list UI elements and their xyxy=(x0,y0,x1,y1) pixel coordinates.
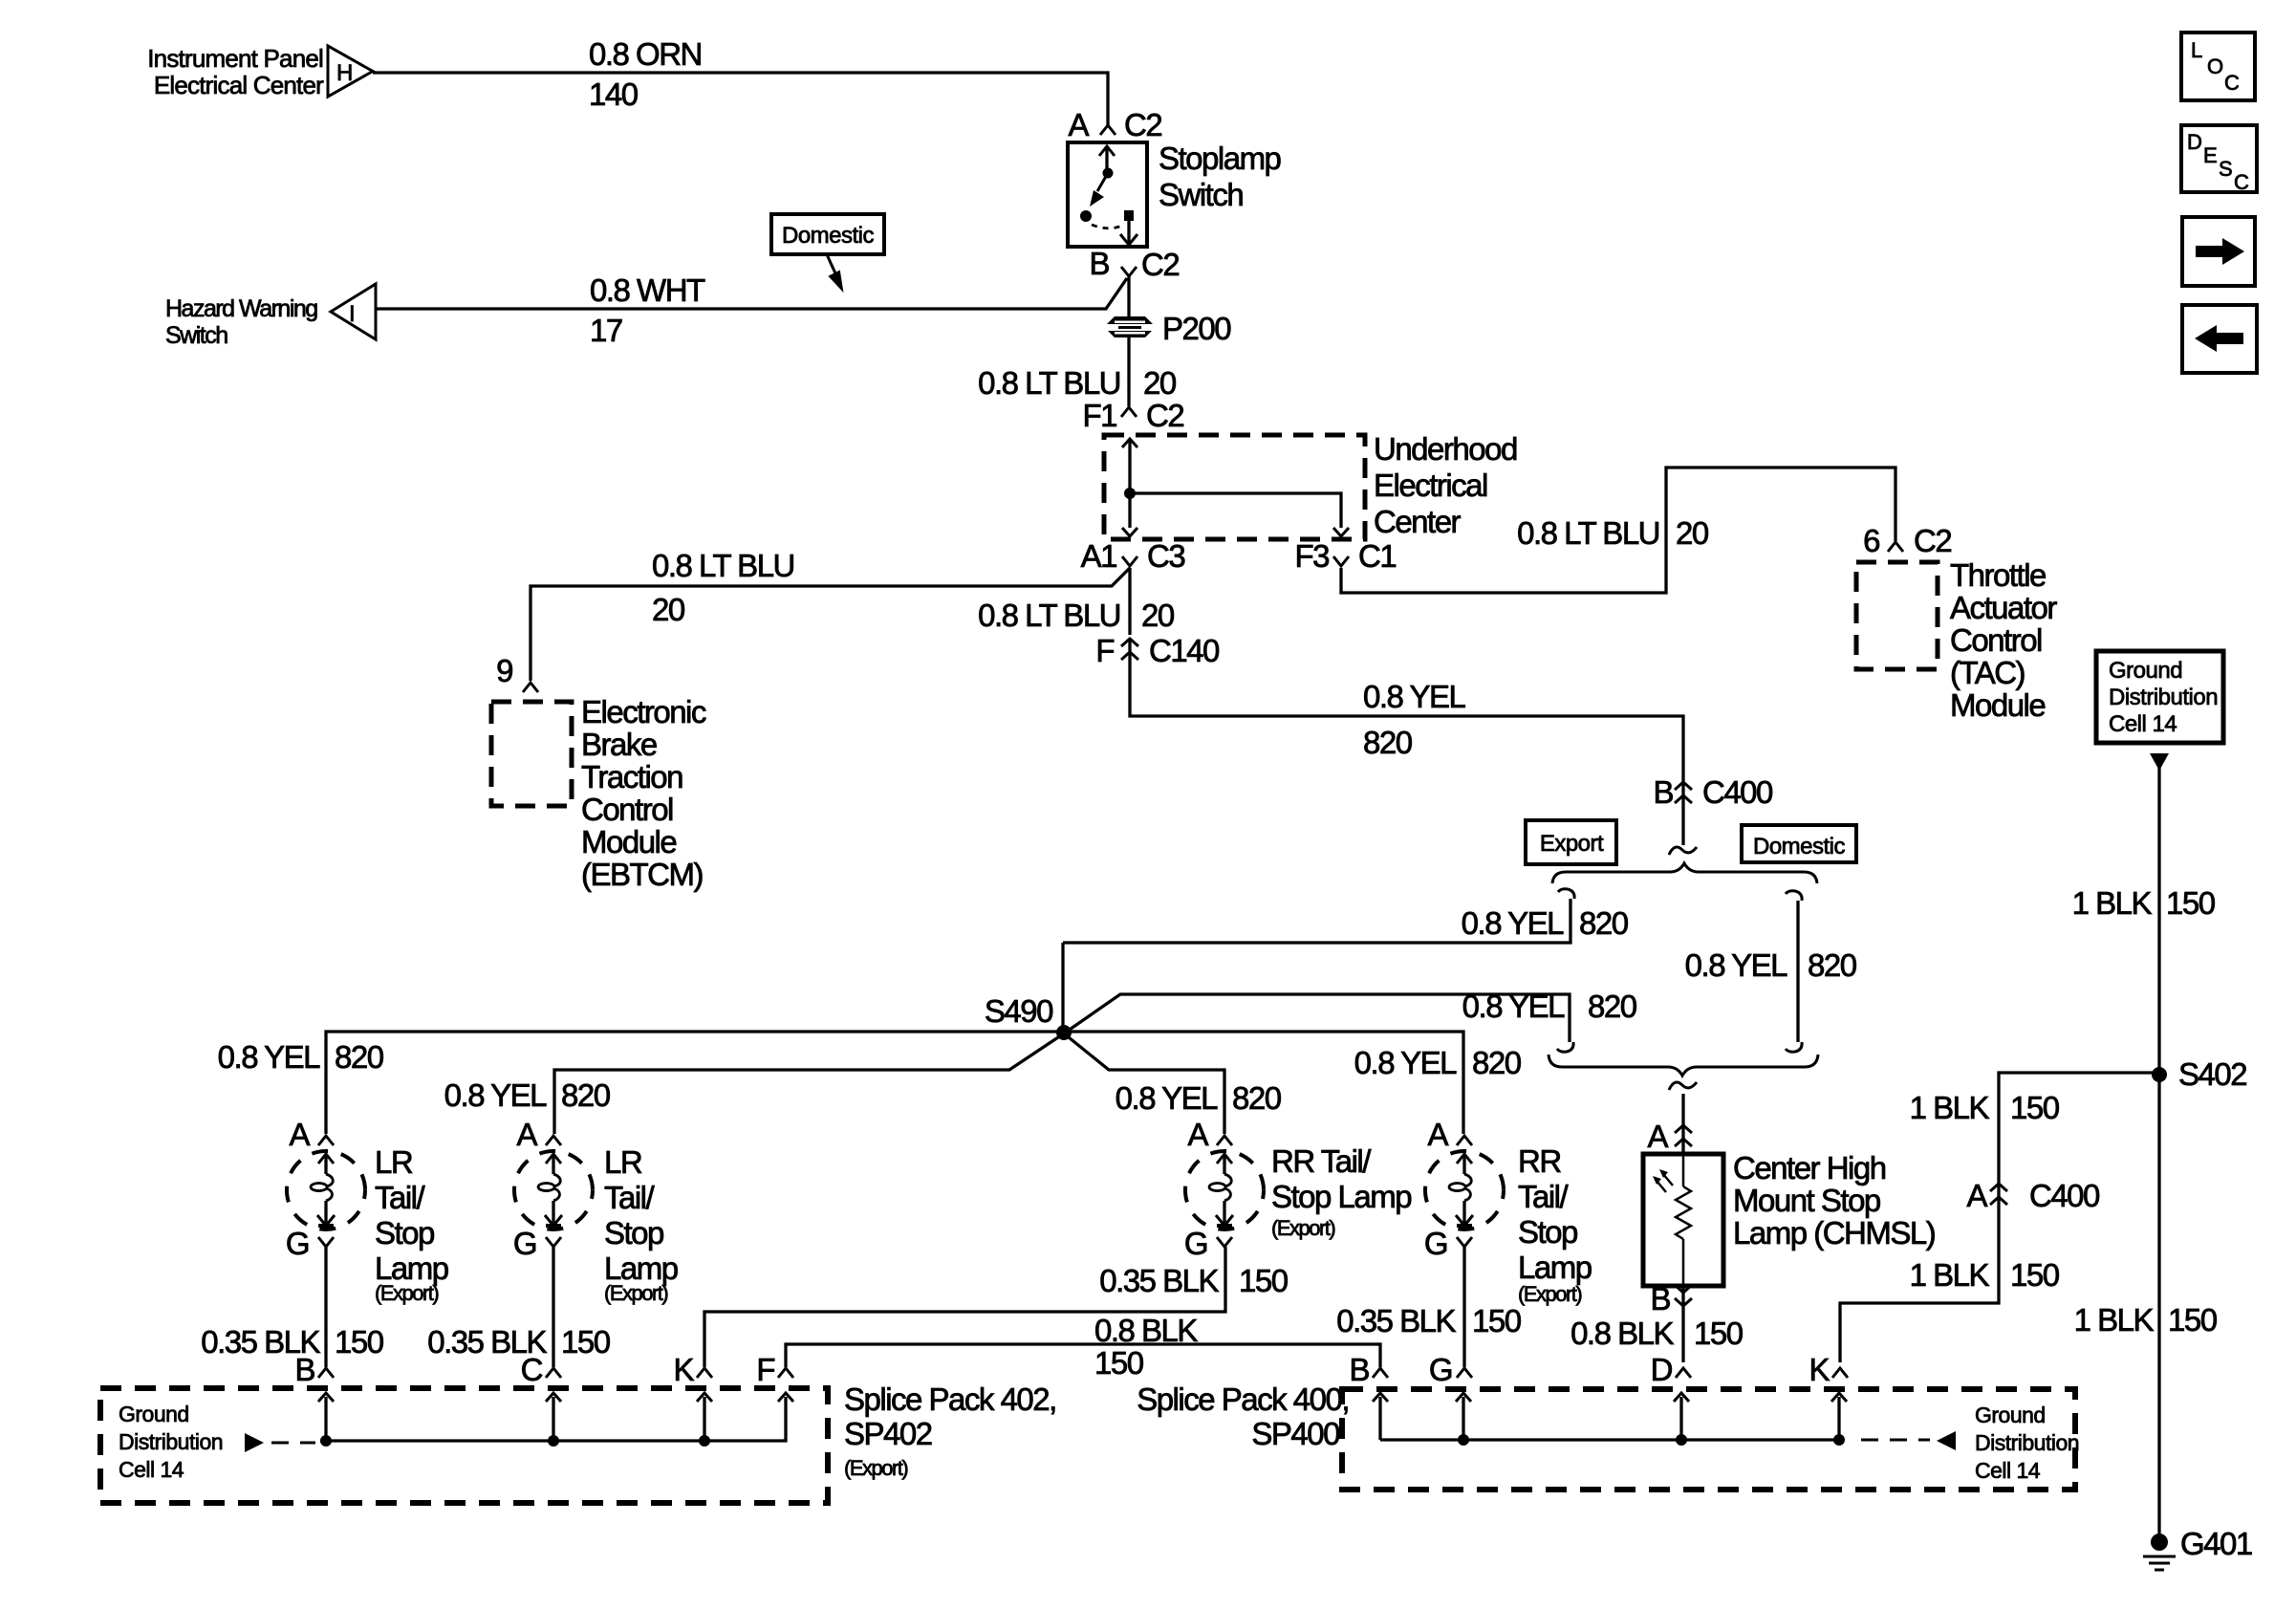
label 1 BLK (branch upper) xyxy=(1910,1090,1990,1125)
svg-text:820: 820 xyxy=(1588,989,1637,1024)
label 0.35 BLK (lamp3) xyxy=(1099,1263,1219,1298)
label Stoplamp Switch xyxy=(1159,141,1281,212)
svg-text:F1: F1 xyxy=(1082,398,1116,433)
label S490 xyxy=(985,993,1053,1029)
label C2 at pin B xyxy=(1141,247,1179,282)
domestic branch vertical wire with curls xyxy=(1786,891,1802,1052)
arrow from Ground Distribution box xyxy=(2150,753,2169,771)
pin B fork of splice pack 400 xyxy=(1349,1352,1388,1387)
connector triangle I to Hazard Warning Switch xyxy=(331,284,376,339)
label F1 xyxy=(1082,398,1116,433)
svg-text:0.8 YEL: 0.8 YEL xyxy=(1116,1080,1218,1116)
svg-text:0.8 ORN: 0.8 ORN xyxy=(589,36,702,72)
svg-text:Ground: Ground xyxy=(119,1402,189,1426)
label 0.8 ORN xyxy=(589,36,702,72)
svg-text:0.8 WHT: 0.8 WHT xyxy=(590,272,705,308)
svg-text:A: A xyxy=(1966,1178,1987,1213)
svg-text:820: 820 xyxy=(1808,947,1857,983)
label 6 at TAC pin xyxy=(1863,523,1879,558)
svg-text:A: A xyxy=(516,1117,537,1152)
label 0.8 YEL (domestic branch) xyxy=(1685,947,1787,983)
label 820 (C400 wire) xyxy=(1363,725,1413,760)
wire 0.35 BLK 150 lamp4 to splice pack 400 pin G xyxy=(1462,1247,1465,1367)
svg-text:A: A xyxy=(1647,1119,1668,1154)
label C400 (right) xyxy=(2029,1178,2100,1213)
legend box LOC xyxy=(2181,33,2255,100)
svg-text:820: 820 xyxy=(1363,725,1413,760)
pin B fork of splice pack 402 xyxy=(294,1352,334,1387)
svg-text:O: O xyxy=(2207,54,2223,78)
svg-text:C400: C400 xyxy=(1702,774,1773,810)
node S402 junction dot xyxy=(2152,1067,2167,1082)
svg-text:(Export): (Export) xyxy=(375,1281,438,1305)
ground distribution leader arrow (SP402) xyxy=(245,1433,315,1452)
svg-text:S490: S490 xyxy=(985,993,1053,1029)
lamp symbol LR tail/stop lamp 1 xyxy=(287,1151,365,1229)
stoplamp switch box xyxy=(1068,142,1147,247)
svg-text:Control: Control xyxy=(1950,622,2042,658)
ground G401 symbol xyxy=(2143,1534,2176,1570)
wire 0.8 ORN 140 from H to stoplamp switch pin A xyxy=(373,73,1108,125)
svg-text:150: 150 xyxy=(2166,885,2216,921)
svg-text:A: A xyxy=(289,1117,310,1152)
svg-text:Mount Stop: Mount Stop xyxy=(1733,1183,1880,1218)
label 1 BLK (branch lower) xyxy=(1910,1257,1990,1293)
label 0.35 BLK (lamp2) xyxy=(427,1324,547,1360)
svg-text:Module: Module xyxy=(581,824,676,859)
svg-text:0.8 YEL: 0.8 YEL xyxy=(1462,905,1564,941)
svg-text:S402: S402 xyxy=(2178,1056,2246,1092)
svg-text:C: C xyxy=(2234,170,2249,194)
svg-text:820: 820 xyxy=(561,1077,611,1113)
svg-text:C3: C3 xyxy=(1147,538,1184,574)
label 0.8 LT BLU (TAC wire) xyxy=(1517,515,1659,551)
label 150 (lamp3 gnd) xyxy=(1239,1263,1289,1298)
svg-text:0.35 BLK: 0.35 BLK xyxy=(1336,1303,1456,1338)
svg-text:C400: C400 xyxy=(2029,1178,2100,1213)
wire S402 branch to A C400 and splice pack 400 pin K xyxy=(1840,1073,2159,1362)
arrow from Domestic flag to WHT wire xyxy=(827,254,842,290)
label 820 (lamp4) xyxy=(1472,1045,1522,1080)
pin A connector C400 (right) xyxy=(1966,1178,2007,1213)
label RR Tail/Stop Lamp (Export) xyxy=(1271,1143,1411,1240)
label C140 xyxy=(1149,633,1220,668)
svg-text:LR: LR xyxy=(375,1144,413,1180)
svg-text:20: 20 xyxy=(652,592,685,627)
svg-text:G: G xyxy=(1429,1352,1452,1387)
label 0.35 BLK (lamp4) xyxy=(1336,1303,1456,1338)
svg-text:Stop: Stop xyxy=(375,1215,434,1251)
label Ground Distribution Cell 14 (in SP402) xyxy=(119,1402,223,1482)
label B at C400 xyxy=(1653,774,1673,810)
label 9 at EBTCM pin xyxy=(496,653,512,688)
svg-text:Electrical Center: Electrical Center xyxy=(154,71,324,99)
svg-text:Traction: Traction xyxy=(581,759,682,794)
stoplamp switch internal contacts xyxy=(1080,146,1137,245)
svg-text:Lamp: Lamp xyxy=(1518,1250,1592,1285)
pin G fork of RR tail/stop lamp xyxy=(1424,1226,1472,1261)
svg-text:S: S xyxy=(2219,157,2233,181)
svg-text:820: 820 xyxy=(1232,1080,1282,1116)
svg-text:Electronic: Electronic xyxy=(581,694,706,729)
pin B label of stoplamp switch xyxy=(1089,246,1109,281)
pin A fork C2 on stoplamp switch xyxy=(1100,125,1116,135)
svg-text:150: 150 xyxy=(2168,1302,2218,1338)
svg-text:0.8 BLK: 0.8 BLK xyxy=(1570,1316,1674,1351)
svg-text:G: G xyxy=(513,1226,536,1261)
label LR Tail/Stop Lamp (Export) 1 xyxy=(375,1144,448,1305)
svg-text:820: 820 xyxy=(1579,905,1629,941)
svg-text:F3: F3 xyxy=(1294,538,1329,574)
svg-text:D: D xyxy=(1651,1352,1673,1387)
svg-text:Module: Module xyxy=(1950,687,2045,723)
svg-text:Center: Center xyxy=(1374,504,1462,539)
svg-text:150: 150 xyxy=(1094,1345,1144,1381)
pin K fork of splice pack 400 xyxy=(1809,1352,1848,1387)
svg-text:(EBTCM): (EBTCM) xyxy=(581,857,703,892)
svg-text:0.8 YEL: 0.8 YEL xyxy=(1685,947,1787,983)
label C1 xyxy=(1358,538,1396,574)
label 820 (lamp3) xyxy=(1232,1080,1282,1116)
svg-text:820: 820 xyxy=(1472,1045,1522,1080)
svg-text:E: E xyxy=(2203,143,2218,167)
svg-text:C2: C2 xyxy=(1146,398,1183,433)
underbrace joining Export and Domestic to CHMSL xyxy=(1549,1055,1818,1076)
wire S490 riser xyxy=(1061,943,1064,1033)
svg-text:0.8 LT BLU: 0.8 LT BLU xyxy=(1517,515,1659,551)
svg-text:17: 17 xyxy=(590,313,622,348)
underhood internal wire to F3 xyxy=(1130,493,1349,536)
svg-text:RR: RR xyxy=(1518,1143,1561,1179)
label C2 at pin A xyxy=(1124,107,1161,142)
svg-text:Splice Pack 400,: Splice Pack 400, xyxy=(1137,1382,1349,1417)
svg-text:C: C xyxy=(521,1352,543,1387)
svg-text:C2: C2 xyxy=(1914,523,1951,558)
flag box Domestic (middle) xyxy=(1742,825,1856,862)
lamp symbol RR tail/stop lamp (export) xyxy=(1185,1151,1264,1229)
pin 6 fork C2 on TAC module xyxy=(1888,542,1903,552)
svg-text:140: 140 xyxy=(589,76,639,112)
svg-text:Center High: Center High xyxy=(1733,1150,1886,1186)
grommet P200 symbol xyxy=(1099,316,1160,337)
wire 1 BLK 150 main ground drop xyxy=(2157,765,2160,1537)
label P200 xyxy=(1162,311,1231,346)
wire 0.35 BLK 150 lamp2 to splice pack 402 pin C xyxy=(552,1247,554,1367)
label 820 (domestic branch) xyxy=(1808,947,1857,983)
svg-text:150: 150 xyxy=(1239,1263,1289,1298)
label 0.8 LT BLU 20 above C140 xyxy=(978,598,1175,633)
pin C fork of splice pack 402 xyxy=(521,1352,561,1387)
svg-text:820: 820 xyxy=(335,1039,384,1075)
flag box Export xyxy=(1526,820,1616,864)
svg-text:Domestic: Domestic xyxy=(782,223,875,249)
wire 0.35 BLK 150 lamp1 to splice pack 402 pin B xyxy=(324,1247,327,1367)
label 0.8 YEL (lamp4) xyxy=(1354,1045,1457,1080)
wire from underbrace to CHMSL pin A xyxy=(1681,1094,1684,1154)
label 150 (jumper) xyxy=(1094,1345,1144,1381)
svg-text:G: G xyxy=(1424,1226,1447,1261)
pin F fork of splice pack 402 xyxy=(756,1352,793,1387)
underhood electrical center dashed box xyxy=(1104,435,1365,539)
label F at C140 xyxy=(1095,633,1114,668)
svg-text:(Export): (Export) xyxy=(1518,1282,1581,1306)
ground distribution leader arrow (SP400) xyxy=(1861,1431,1956,1450)
svg-text:Lamp (CHMSL): Lamp (CHMSL) xyxy=(1733,1215,1935,1251)
wire S490 to LR tail stop lamp 1 xyxy=(326,1032,1064,1134)
svg-text:A: A xyxy=(1427,1117,1448,1152)
svg-text:D: D xyxy=(2187,130,2202,154)
svg-text:I: I xyxy=(349,301,356,327)
splice pack 400 dashed box xyxy=(1342,1389,2075,1490)
svg-text:RR Tail/: RR Tail/ xyxy=(1271,1143,1372,1179)
svg-text:0.8 YEL: 0.8 YEL xyxy=(218,1039,320,1075)
svg-text:F: F xyxy=(1095,633,1114,668)
label C2 at F1 xyxy=(1146,398,1183,433)
label C3 xyxy=(1147,538,1184,574)
svg-text:Ground: Ground xyxy=(1975,1403,2046,1427)
svg-text:Distribution: Distribution xyxy=(119,1429,223,1454)
label 20 (EBTCM wire) xyxy=(652,592,685,627)
svg-text:(Export): (Export) xyxy=(604,1281,667,1305)
label 150 (lamp1 gnd) xyxy=(335,1324,384,1360)
svg-text:0.8 YEL: 0.8 YEL xyxy=(1354,1045,1457,1080)
label F3 xyxy=(1294,538,1329,574)
svg-text:150: 150 xyxy=(1472,1303,1522,1338)
svg-text:Stop: Stop xyxy=(1518,1214,1577,1250)
svg-text:Domestic: Domestic xyxy=(1753,834,1846,859)
label 820 (export branch) xyxy=(1579,905,1629,941)
wire S490 to RR tail stop lamp export xyxy=(1064,1033,1224,1134)
wire 0.8 BLK 150 from CHMSL B to splice pack 400 pin D xyxy=(1681,1286,1684,1362)
svg-text:0.8 YEL: 0.8 YEL xyxy=(1363,679,1465,714)
label 20 (TAC wire) xyxy=(1676,515,1709,551)
label 0.8 YEL (C400 wire) xyxy=(1363,679,1465,714)
label 17 xyxy=(590,313,622,348)
label 150 (lamp2 gnd) xyxy=(561,1324,611,1360)
label Instrument Panel Electrical Center xyxy=(147,44,324,99)
svg-text:G401: G401 xyxy=(2180,1526,2252,1561)
svg-text:1 BLK: 1 BLK xyxy=(1910,1257,1990,1293)
pin F1 fork C2 on underhood electrical center xyxy=(1121,407,1137,417)
pin B fork C2 on stoplamp switch xyxy=(1121,267,1137,276)
svg-text:Cell 14: Cell 14 xyxy=(119,1457,184,1482)
underhood internal wire to F1 with junction xyxy=(1122,439,1137,536)
pin G fork of LR tail/stop lamp 2 xyxy=(513,1226,561,1261)
label 150 (CHMSL) xyxy=(1694,1316,1744,1351)
label 820 (S490 to brace) xyxy=(1588,989,1637,1024)
pin G fork of RR tail/stop lamp (export) xyxy=(1184,1226,1232,1261)
Ground Distribution Cell 14 box (top right) xyxy=(2096,651,2223,743)
splice pack 402 dashed box xyxy=(100,1388,828,1503)
EBTCM dashed box xyxy=(491,702,572,806)
pin A fork of RR tail/stop lamp xyxy=(1427,1117,1472,1152)
lamp symbol RR tail/stop lamp xyxy=(1425,1151,1504,1229)
label 150 (upper) xyxy=(2166,885,2216,921)
label 0.8 YEL (S490 to brace) xyxy=(1462,989,1565,1024)
pin G fork of splice pack 400 xyxy=(1429,1352,1472,1387)
pin 9 fork on EBTCM xyxy=(523,683,538,692)
svg-text:B: B xyxy=(1089,246,1109,281)
wire S490 to LR tail stop lamp 2 xyxy=(554,1033,1064,1134)
label 820 (lamp2) xyxy=(561,1077,611,1113)
label Ground Distribution Cell 14 (in SP400) xyxy=(1975,1403,2079,1483)
pin G fork of LR tail/stop lamp 1 xyxy=(286,1226,334,1261)
svg-text:Ground: Ground xyxy=(2109,658,2182,684)
pin A connector of CHMSL xyxy=(1647,1119,1692,1154)
label 150 (branch lower) xyxy=(2010,1257,2060,1293)
svg-text:Tail/: Tail/ xyxy=(1518,1179,1570,1214)
svg-text:B: B xyxy=(1349,1352,1369,1387)
label S402 xyxy=(2178,1056,2246,1092)
svg-text:Stoplamp: Stoplamp xyxy=(1159,141,1281,176)
label 150 (branch upper) xyxy=(2010,1090,2060,1125)
label 0.8 YEL (export branch) xyxy=(1462,905,1564,941)
svg-text:0.8 YEL: 0.8 YEL xyxy=(1462,989,1565,1024)
splice pack 400 internal bus xyxy=(1373,1393,1847,1446)
svg-text:C: C xyxy=(2224,71,2240,95)
label Throttle Actuator Control (TAC) Module xyxy=(1950,557,2057,723)
label 0.8 LT BLU 20 above F1 xyxy=(978,365,1177,401)
wire 0.8 YEL 820 from C140 to B C400 xyxy=(1130,639,1683,845)
label 0.8 WHT xyxy=(590,272,705,308)
label 150 (lamp4 gnd) xyxy=(1472,1303,1522,1338)
label 0.35 BLK (lamp1) xyxy=(201,1324,320,1360)
svg-text:Actuator: Actuator xyxy=(1950,590,2057,625)
label Underhood Electrical Center xyxy=(1374,431,1517,539)
label A1 xyxy=(1081,538,1117,574)
wire 0.8 LT BLU 20 from F3 to TAC pin 6 xyxy=(1341,468,1895,593)
svg-text:SP400: SP400 xyxy=(1251,1416,1340,1451)
svg-text:150: 150 xyxy=(1694,1316,1744,1351)
svg-text:Instrument Panel: Instrument Panel xyxy=(147,44,323,73)
svg-text:K: K xyxy=(1809,1352,1830,1387)
label 140 xyxy=(589,76,639,112)
label LR Tail/Stop Lamp (Export) 2 xyxy=(604,1144,678,1305)
lamp symbol LR tail/stop lamp 2 xyxy=(514,1151,593,1229)
svg-text:Cell 14: Cell 14 xyxy=(1975,1458,2041,1483)
pin A fork of LR tail/stop lamp 1 xyxy=(289,1117,334,1152)
node S490 junction dot xyxy=(1056,1025,1072,1040)
svg-text:Hazard Warning: Hazard Warning xyxy=(165,295,317,322)
pin K fork of splice pack 402 xyxy=(673,1352,712,1387)
CHMSL internal resistor and light arrows xyxy=(1653,1154,1691,1286)
export branch wire with curl to S490 riser xyxy=(1063,889,1574,943)
svg-text:1 BLK: 1 BLK xyxy=(2074,1302,2155,1338)
svg-text:LR: LR xyxy=(604,1144,642,1180)
wire break squiggle above CHMSL feed xyxy=(1669,1082,1697,1090)
connector B C400 double chevron xyxy=(1675,782,1692,803)
wire from pin B through P200 to F1 xyxy=(1127,276,1130,406)
svg-text:0.8 LT BLU: 0.8 LT BLU xyxy=(652,548,794,583)
label Hazard Warning Switch xyxy=(165,295,317,349)
svg-text:Underhood: Underhood xyxy=(1374,431,1517,467)
pin A fork of RR tail/stop lamp (export) xyxy=(1187,1117,1232,1152)
svg-text:G: G xyxy=(286,1226,309,1261)
legend box right arrow xyxy=(2182,217,2255,286)
svg-text:(Export): (Export) xyxy=(844,1456,907,1480)
svg-text:150: 150 xyxy=(335,1324,384,1360)
svg-text:0.8 LT BLU: 0.8 LT BLU xyxy=(978,598,1120,633)
overbrace splitting to Export and Domestic xyxy=(1552,863,1817,883)
label RR Tail/Stop Lamp xyxy=(1518,1143,1592,1306)
svg-text:Stop Lamp: Stop Lamp xyxy=(1271,1179,1411,1214)
pin B connector of CHMSL xyxy=(1650,1281,1692,1316)
label Splice Pack 400 SP400 xyxy=(1137,1382,1349,1451)
splice pack 402 internal bus xyxy=(318,1393,793,1447)
svg-text:SP402: SP402 xyxy=(844,1416,932,1451)
svg-text:B: B xyxy=(1653,774,1673,810)
label 0.8 BLK (jumper) xyxy=(1094,1313,1198,1348)
wire from S490 to underbrace left with curl xyxy=(1064,994,1573,1052)
svg-text:B: B xyxy=(294,1352,314,1387)
pin A1 fork C3 xyxy=(1122,556,1137,566)
svg-text:Switch: Switch xyxy=(1159,177,1243,212)
svg-text:C2: C2 xyxy=(1124,107,1161,142)
legend box left arrow xyxy=(2182,305,2257,373)
wire 0.8 LT BLU 20 from A1 to EBTCM pin 9 xyxy=(531,568,1130,681)
svg-text:Throttle: Throttle xyxy=(1950,557,2046,593)
svg-text:G: G xyxy=(1184,1226,1207,1261)
connector C140 double chevron xyxy=(1121,639,1138,660)
svg-text:0.35 BLK: 0.35 BLK xyxy=(1099,1263,1219,1298)
svg-text:20: 20 xyxy=(1676,515,1709,551)
svg-text:C140: C140 xyxy=(1149,633,1220,668)
connector triangle H to Instrument Panel Electrical Center xyxy=(328,46,373,97)
svg-text:Tail/: Tail/ xyxy=(604,1180,656,1215)
CHMSL box xyxy=(1643,1154,1723,1286)
svg-text:20: 20 xyxy=(1143,365,1177,401)
svg-text:150: 150 xyxy=(561,1324,611,1360)
flag box Domestic (top) xyxy=(771,214,884,254)
label Splice Pack 402 SP402 (Export) xyxy=(844,1382,1056,1480)
label 0.8 YEL (lamp3) xyxy=(1116,1080,1218,1116)
svg-text:Tail/: Tail/ xyxy=(375,1180,426,1215)
wire 0.8 BLK 150 splice pack 402 F to splice pack 400 B xyxy=(786,1344,1380,1367)
label C400 xyxy=(1702,774,1773,810)
pin F3 fork C1 xyxy=(1333,556,1349,566)
label 0.8 BLK (CHMSL) xyxy=(1570,1316,1674,1351)
svg-text:150: 150 xyxy=(2010,1090,2060,1125)
svg-text:Splice Pack 402,: Splice Pack 402, xyxy=(844,1382,1056,1417)
svg-text:A: A xyxy=(1068,107,1089,142)
label 0.8 LT BLU (EBTCM wire) xyxy=(652,548,794,583)
svg-text:150: 150 xyxy=(2010,1257,2060,1293)
svg-text:L: L xyxy=(2191,38,2202,62)
svg-text:C1: C1 xyxy=(1358,538,1396,574)
svg-text:Cell 14: Cell 14 xyxy=(2109,711,2177,737)
svg-text:1 BLK: 1 BLK xyxy=(1910,1090,1990,1125)
pin D fork of splice pack 400 xyxy=(1651,1352,1691,1387)
svg-text:P200: P200 xyxy=(1162,311,1231,346)
svg-text:Export: Export xyxy=(1540,831,1604,857)
svg-text:Control: Control xyxy=(581,792,673,827)
svg-text:Electrical: Electrical xyxy=(1374,468,1487,503)
svg-text:(Export): (Export) xyxy=(1271,1216,1334,1240)
svg-text:(TAC): (TAC) xyxy=(1950,655,2025,690)
label Electronic Brake Traction Control Module (EBTCM) xyxy=(581,694,706,892)
svg-text:C2: C2 xyxy=(1141,247,1179,282)
svg-text:Distribution: Distribution xyxy=(2109,685,2218,710)
label 0.8 YEL (lamp2) xyxy=(444,1077,547,1113)
svg-text:9: 9 xyxy=(496,653,512,688)
svg-text:K: K xyxy=(673,1352,694,1387)
svg-text:A: A xyxy=(1187,1117,1208,1152)
wire from A1 down to C140 xyxy=(1128,568,1131,635)
svg-text:1 BLK: 1 BLK xyxy=(2072,885,2153,921)
pin A label of stoplamp switch xyxy=(1068,107,1089,142)
label 1 BLK (main lower) xyxy=(2074,1302,2155,1338)
legend box DESC xyxy=(2181,125,2257,194)
